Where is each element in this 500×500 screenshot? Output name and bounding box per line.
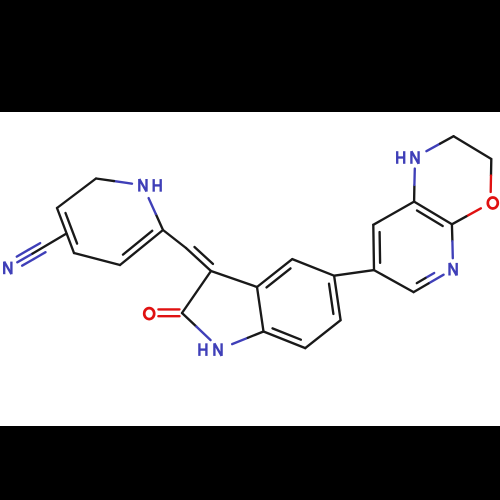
benzo C6-C7 bond	[305, 320, 340, 348]
left ring N label	[139, 179, 146, 192]
pyridine N=C7 double bond	[429, 275, 444, 284]
oxindole C3a-C3 bond	[211, 271, 257, 287]
nitrile C#N triple bond	[17, 254, 32, 263]
pyridine N label	[450, 263, 457, 276]
oxazine N label	[411, 151, 418, 164]
bottom black letterbox bar	[0, 426, 500, 500]
top black letterbox bar	[0, 0, 500, 112]
oxazine N1-C2 bond	[426, 144, 440, 152]
pyridine C7-C6 bond	[374, 270, 414, 292]
oxindole C3-C2 bond	[182, 271, 211, 313]
oxindole C2-N1 bond	[182, 313, 196, 327]
oxazine O4-C8a bond	[466, 208, 481, 216]
left ring C6-C5 bond	[57, 179, 96, 209]
biaryl link bond	[334, 270, 374, 276]
pyridine C8a-N bond	[451, 224, 454, 241]
left ring N-C6 bond	[114, 181, 132, 184]
bridge C2-CH single bond	[163, 230, 186, 248]
benzo C7=C7a double bond	[264, 332, 306, 349]
left ring C2-N bond	[156, 214, 163, 230]
bridge CH=C3 double bond	[186, 248, 211, 271]
oxazine O label	[488, 198, 498, 209]
benzo C4-C5 bond	[292, 259, 334, 276]
oxazine C3-O4 bond	[490, 159, 493, 176]
nitrile N label	[4, 262, 11, 275]
left ring H label	[154, 179, 161, 192]
pyridine C5-C4a bond	[373, 202, 414, 225]
oxindole N label	[214, 343, 221, 356]
C2=O carbonyl double bond	[158, 308, 179, 310]
oxazine C2-C3 bond	[454, 136, 492, 159]
benzo C5=C6 double bond	[334, 276, 341, 321]
left ring C3=C2 double bond	[120, 230, 163, 265]
oxindole N1-C7a bond	[232, 338, 248, 344]
oxazine C4a-N1 bond	[413, 185, 416, 202]
oxazine H label	[397, 151, 404, 164]
pyridine C6=C5 double bond	[372, 225, 375, 270]
left ring C5=C4 double bond	[57, 208, 74, 253]
carbonyl O label	[144, 308, 154, 319]
oxindole C7a-C3a bond	[257, 287, 264, 332]
pyridine C4a=C8a double bond	[414, 202, 452, 225]
oxindole H label	[199, 343, 206, 356]
left ring C4-C3 bond	[74, 253, 120, 265]
benzo C3a=C4 double bond	[257, 259, 292, 287]
